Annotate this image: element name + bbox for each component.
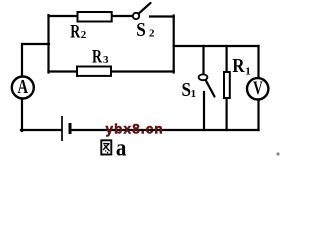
svg-text:a: a — [116, 136, 127, 160]
svg-text:1: 1 — [245, 65, 251, 77]
svg-text:2: 2 — [81, 29, 87, 41]
svg-text:ybx8.cn: ybx8.cn — [106, 121, 164, 136]
svg-text:2: 2 — [149, 27, 155, 39]
svg-text:A: A — [18, 76, 29, 98]
svg-text:3: 3 — [103, 54, 109, 66]
svg-text:V: V — [253, 78, 263, 99]
svg-text:R: R — [70, 22, 80, 43]
svg-text:R: R — [92, 47, 102, 68]
svg-text:R: R — [232, 55, 245, 77]
svg-text:1: 1 — [191, 88, 197, 100]
svg-text:S: S — [136, 19, 146, 41]
